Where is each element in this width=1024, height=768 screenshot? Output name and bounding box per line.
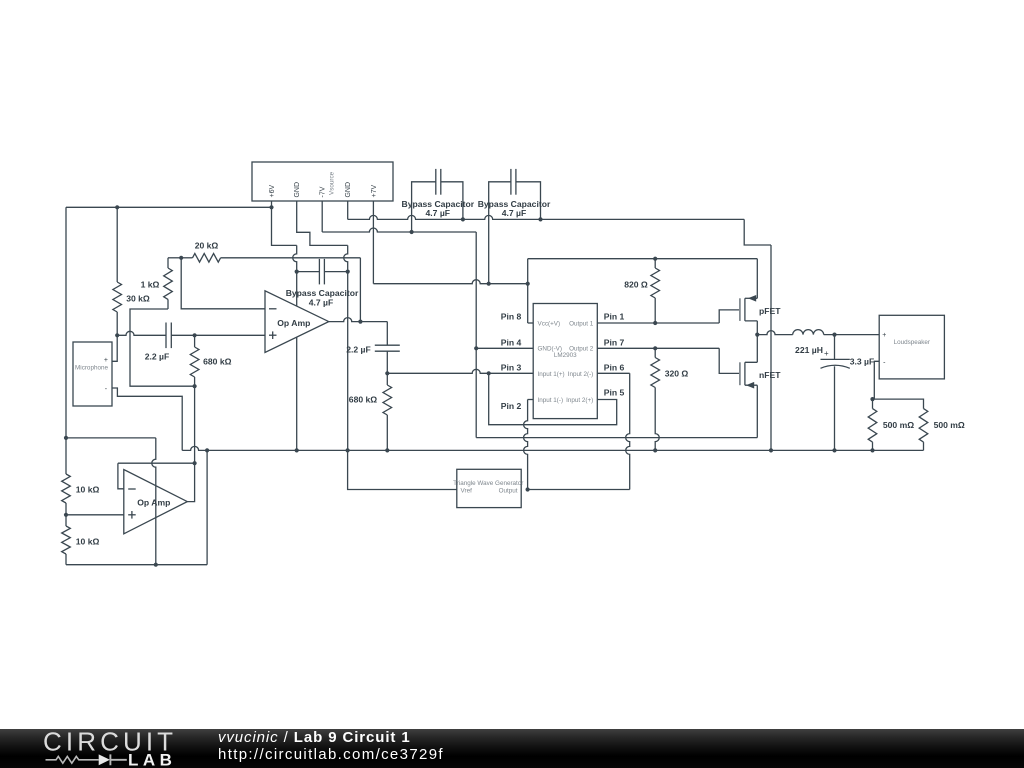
wire inductor to speaker bbox=[824, 334, 880, 336]
svg-text:2.2 µF: 2.2 µF bbox=[346, 344, 371, 354]
resistor 500 mOhm 1 bbox=[872, 399, 874, 409]
resistor 680 kOhm bias bbox=[194, 335, 196, 347]
microphone box bbox=[73, 342, 112, 406]
wire mic junction to cap (hops 1k jog) bbox=[117, 331, 166, 335]
node speaker-/500m top bbox=[870, 397, 874, 401]
wire 1k top to 20k node bbox=[168, 257, 181, 259]
wire op-amp1 V+ supply bbox=[296, 272, 298, 307]
node op-amp1 output bbox=[358, 320, 362, 324]
svg-text:Input 1(+): Input 1(+) bbox=[538, 371, 565, 378]
wire ground rail bbox=[207, 449, 923, 451]
wire GND2 rail right (hops +7V pin, cap1 left, cap2 left) bbox=[348, 215, 745, 219]
wire bypass capacitor1 right bbox=[441, 182, 463, 220]
svg-text:500 mΩ: 500 mΩ bbox=[934, 420, 965, 430]
footer url text bbox=[218, 746, 444, 763]
node output at pFET drain bbox=[755, 333, 759, 337]
node pin2 at TWG output bbox=[526, 487, 530, 491]
wire pin1 up to pFET gate bbox=[719, 310, 739, 323]
node opamp1 V- at rail bbox=[295, 448, 299, 452]
resistor 680 kOhm 2 bbox=[386, 373, 388, 385]
capacitor bypass1 plates 4.7uF bbox=[435, 169, 437, 195]
capacitor bypass2 plates 4.7uF bbox=[510, 169, 512, 195]
svg-text:Microphone: Microphone bbox=[75, 365, 108, 372]
svg-text:Op Amp: Op Amp bbox=[277, 318, 310, 328]
node cap3/vref at rail bbox=[346, 448, 350, 452]
capacitor 3.3 uF polarized bbox=[821, 358, 850, 360]
svg-text:Output 1: Output 1 bbox=[569, 320, 594, 327]
svg-text:LM2903: LM2903 bbox=[554, 352, 577, 359]
wire GND pin4 down bbox=[347, 201, 349, 219]
wire nFET source row leftward bbox=[476, 437, 757, 439]
resistor 20 kOhm bbox=[181, 257, 192, 259]
node tap at bottom bbox=[154, 563, 158, 567]
wire 1k bottom jog to 680k bottom bbox=[130, 309, 195, 386]
svg-text:820 Ω: 820 Ω bbox=[624, 279, 648, 289]
wire pin6 bottom to TWG bbox=[528, 489, 630, 491]
node +7V at Vcc vertical bbox=[526, 282, 530, 286]
wire -7V rail right (hops +7V pin) bbox=[322, 228, 476, 232]
svg-text:Triangle Wave Generator: Triangle Wave Generator bbox=[453, 480, 523, 487]
wire bypass capacitor3 left lead bbox=[297, 271, 320, 273]
wire Vcc vertical bbox=[527, 259, 529, 323]
node 320 top on output2 bbox=[653, 346, 657, 350]
wire bypass capacitor2 left bbox=[489, 182, 511, 284]
node divider mid bbox=[64, 513, 68, 517]
resistor 320 Ohm bbox=[654, 348, 656, 357]
svg-text:Loudspeaker: Loudspeaker bbox=[894, 339, 930, 346]
svg-text:Input 2(-): Input 2(-) bbox=[568, 371, 594, 378]
wire tap jog right bbox=[66, 437, 156, 439]
op-amp U2 plus sign bbox=[128, 514, 136, 516]
wire Input2+ pin5 bbox=[489, 373, 617, 424]
node bypass capacitor3 left bbox=[295, 270, 299, 274]
node 3.3uF top bbox=[832, 333, 836, 337]
wire coupling cap to signal node bbox=[386, 351, 388, 373]
transistor pFET leads bbox=[745, 297, 757, 299]
wire mic- jog bbox=[112, 388, 182, 450]
wire output (hops cap3 vertical) bbox=[329, 318, 388, 322]
svg-text:1 kΩ: 1 kΩ bbox=[141, 279, 160, 289]
svg-text:10 kΩ: 10 kΩ bbox=[76, 537, 100, 547]
node -7V at LM2903 GND(-V) pin bbox=[474, 346, 478, 350]
wire bypass capacitor1 left bbox=[412, 182, 436, 232]
wire speaker minus bbox=[874, 361, 879, 399]
wire down to 3.3uF bbox=[834, 335, 836, 360]
svg-text:4.7 µF: 4.7 µF bbox=[426, 208, 451, 218]
node signal at 680k2 top bbox=[385, 371, 389, 375]
svg-text:-: - bbox=[883, 360, 886, 367]
wire pFET source drop bbox=[756, 259, 758, 299]
wire -7V vertical continues to nFET source row bbox=[475, 348, 477, 437]
resistor 30 kOhm bbox=[116, 207, 118, 282]
svg-text:LAB: LAB bbox=[128, 751, 176, 768]
node 680k top bbox=[193, 333, 197, 337]
svg-text:2.2 µF: 2.2 µF bbox=[145, 351, 170, 361]
transistor pFET arrow bbox=[748, 295, 756, 302]
transistor pFET gate bar bbox=[739, 298, 741, 321]
wire left rail down bbox=[65, 207, 67, 474]
wire output node to inductor (hops GND2 vertical) bbox=[757, 331, 792, 335]
node 20k/1k/minus junction bbox=[179, 256, 183, 260]
wire 320 bottom to ground (hops source row) bbox=[655, 388, 659, 451]
wire minus input bbox=[181, 258, 265, 309]
svg-text:Input 2(+): Input 2(+) bbox=[566, 397, 593, 404]
transistor nFET gate bar bbox=[739, 362, 741, 385]
wire 3.3uF bottom to ground bbox=[834, 366, 836, 450]
wire mic- stub to ground (hops 680k vertical) bbox=[182, 446, 207, 450]
svg-text:Input 1(-): Input 1(-) bbox=[538, 397, 564, 404]
node 820 ohm top bbox=[653, 257, 657, 261]
node cap1 right on GND2 rail bbox=[461, 217, 465, 221]
wire signal row to LM2903 (hops -7V vertical) bbox=[387, 369, 533, 373]
wire -7V pin down bbox=[321, 201, 323, 232]
wire 500m top link bbox=[873, 399, 924, 409]
svg-text:+6V: +6V bbox=[269, 185, 276, 198]
svg-text:Pin 2: Pin 2 bbox=[501, 401, 522, 411]
node 500m1 bottom bbox=[870, 448, 874, 452]
wire GND1 down to cap3 right (hops 20k wire) bbox=[344, 245, 348, 271]
wire feedback to minus bbox=[118, 462, 195, 464]
svg-text:GND: GND bbox=[294, 182, 301, 198]
svg-text:680 kΩ: 680 kΩ bbox=[349, 395, 378, 405]
svg-text:Pin 6: Pin 6 bbox=[604, 363, 625, 373]
svg-text:221 µH: 221 µH bbox=[795, 345, 823, 355]
transistor nFET leads bbox=[745, 335, 757, 363]
resistor 820 Ohm bbox=[654, 259, 656, 268]
wire pin6 down to TWG output (hops source row and ground rail) bbox=[626, 373, 630, 489]
op-amp U1 plus sign bbox=[269, 334, 277, 336]
inductor 221 uH bbox=[793, 330, 824, 335]
wire +6V pin down bbox=[271, 201, 273, 207]
wire bypass capacitor2 right bbox=[516, 182, 541, 220]
op-amp U1 minus sign bbox=[269, 308, 277, 310]
svg-text:nFET: nFET bbox=[759, 370, 781, 380]
transistor nFET channel bbox=[744, 362, 746, 385]
comparator LM2903 box bbox=[533, 304, 597, 419]
node 3.3uF at rail bbox=[832, 448, 836, 452]
svg-text:Output: Output bbox=[499, 487, 518, 494]
wire GND2 jog down to x=771 bbox=[744, 219, 771, 245]
node mic+/cap junction bbox=[115, 333, 119, 337]
wire Output1 pin1 row bbox=[597, 322, 719, 324]
wire Vcc pin into LM2903 bbox=[528, 322, 534, 324]
node 320 at ground rail bbox=[653, 448, 657, 452]
node GND2 at rail bbox=[769, 448, 773, 452]
capacitor 2.2 uF input bbox=[165, 323, 167, 349]
capacitor bypass3 plates 4.7uF bbox=[318, 259, 320, 285]
svg-text:Vref: Vref bbox=[461, 487, 473, 494]
svg-text:Pin 8: Pin 8 bbox=[501, 311, 522, 321]
svg-text:Pin 5: Pin 5 bbox=[604, 388, 625, 398]
footer title text bbox=[218, 729, 411, 746]
transistor pFET channel bbox=[744, 298, 746, 321]
node -7V / cap1 left junction bbox=[410, 230, 414, 234]
svg-text:3.3 µF: 3.3 µF bbox=[850, 356, 875, 366]
transistor nFET arrow bbox=[746, 382, 754, 389]
svg-text:30 kΩ: 30 kΩ bbox=[126, 293, 150, 303]
wire divider bottom bbox=[66, 564, 207, 566]
wire GND pin2 jog bbox=[297, 201, 348, 245]
wire Input2- pin6 bbox=[597, 372, 629, 374]
op-amp U1 triangle bbox=[265, 291, 329, 353]
wire +6V rail to left bbox=[66, 206, 272, 208]
wire mic+ to junction bbox=[112, 335, 117, 361]
wire -7V vertical down left of LM2903 bbox=[475, 232, 477, 348]
wire cap3 right down to ground rail bbox=[347, 272, 349, 451]
svg-text:Pin 4: Pin 4 bbox=[501, 337, 522, 347]
wire divider mid to plus input bbox=[66, 514, 124, 516]
svg-text:-7V: -7V bbox=[320, 186, 327, 197]
svg-text:+: + bbox=[824, 349, 829, 358]
svg-text:4.7 µF: 4.7 µF bbox=[502, 208, 527, 218]
svg-text:Pin 1: Pin 1 bbox=[604, 311, 625, 321]
node +6V rail junction bbox=[269, 205, 273, 209]
node divider top tap bbox=[64, 436, 68, 440]
svg-text:Pin 3: Pin 3 bbox=[501, 363, 522, 373]
resistor 1 kOhm bbox=[167, 258, 169, 268]
wire +6V down to op-amp V+ node (hops 20k wire) bbox=[293, 245, 297, 271]
node cap2 left on +7V rail bbox=[487, 282, 491, 286]
CircuitLab logo bbox=[0, 729, 200, 768]
resistor 500 mOhm 2 bbox=[919, 409, 928, 443]
wire op-amp2 output up bbox=[187, 463, 194, 501]
wire TWG vref to ground rail bbox=[348, 450, 457, 489]
node signal/pin5 branch bbox=[487, 371, 491, 375]
svg-text:20 kΩ: 20 kΩ bbox=[195, 241, 219, 251]
power supply box Vsource bbox=[252, 162, 393, 201]
svg-text:pFET: pFET bbox=[759, 306, 781, 316]
wire bypass capacitor3 right lead bbox=[324, 271, 347, 273]
node 820 bottom on output1 bbox=[653, 321, 657, 325]
svg-text:-: - bbox=[105, 386, 108, 393]
wire pin7 down to nFET gate bbox=[719, 348, 739, 373]
wire cap to plus input bbox=[171, 334, 265, 336]
node bypass capacitor3 right bbox=[346, 270, 350, 274]
svg-text:+: + bbox=[882, 332, 886, 339]
svg-text:4.7 µF: 4.7 µF bbox=[309, 297, 334, 307]
wire output down to coupling cap bbox=[386, 322, 388, 346]
capacitor 2.2 uF coupling bbox=[375, 344, 400, 346]
svg-text:+7V: +7V bbox=[371, 185, 378, 198]
svg-text:Vsource: Vsource bbox=[329, 171, 336, 195]
svg-text:320 Ω: 320 Ω bbox=[665, 368, 689, 378]
resistor 10 kOhm lower bbox=[65, 515, 67, 526]
node cap2 right on GND2 rail bbox=[538, 217, 542, 221]
svg-text:680 kΩ: 680 kΩ bbox=[203, 356, 232, 366]
wire +V rail to pFET bbox=[528, 258, 758, 260]
svg-text:+: + bbox=[104, 357, 108, 364]
wire +6V jog down-right to bypass cap bbox=[272, 207, 297, 245]
logo resistor-diode symbol bbox=[46, 756, 99, 763]
op-amp U2 minus sign bbox=[128, 488, 136, 490]
node vref feedback bbox=[193, 461, 197, 465]
svg-text:Vcc(+V): Vcc(+V) bbox=[538, 320, 561, 327]
wire bottom up to ground rail bbox=[206, 450, 208, 564]
op-amp U2 triangle bbox=[124, 470, 188, 534]
wire 680k bottom to vref node bbox=[194, 386, 196, 463]
wire feedback down to minus input bbox=[118, 463, 124, 489]
triangle wave generator box bbox=[457, 469, 521, 507]
wire pin2 down to triangle wave (hops 3 rows) bbox=[524, 400, 528, 490]
wire 20k to op-amp output bbox=[359, 258, 361, 322]
svg-text:500 mΩ: 500 mΩ bbox=[883, 420, 914, 430]
wire +7V pin down bbox=[372, 201, 374, 284]
loudspeaker box bbox=[879, 315, 944, 379]
svg-text:GND: GND bbox=[345, 182, 352, 198]
svg-text:Pin 7: Pin 7 bbox=[604, 337, 625, 347]
node 680k2 at rail bbox=[385, 448, 389, 452]
node 680k bottom bbox=[193, 384, 197, 388]
wire GND2 vertical down to ground rail bbox=[770, 245, 772, 450]
svg-text:10 kΩ: 10 kΩ bbox=[76, 485, 100, 495]
wire Output2 pin7 row bbox=[597, 347, 719, 349]
node ground/mic junction bbox=[205, 448, 209, 452]
svg-text:Op Amp: Op Amp bbox=[137, 497, 170, 507]
resistor 10 kOhm upper bbox=[62, 474, 71, 503]
wire op-amp1 V- to ground rail bbox=[296, 337, 298, 450]
wire GND(-V) pin bbox=[476, 347, 533, 349]
wire +7V rail right (hops -7V vertical) bbox=[373, 280, 527, 284]
node 30k top junction bbox=[115, 205, 119, 209]
wire Input1- pin2 bbox=[528, 399, 534, 401]
